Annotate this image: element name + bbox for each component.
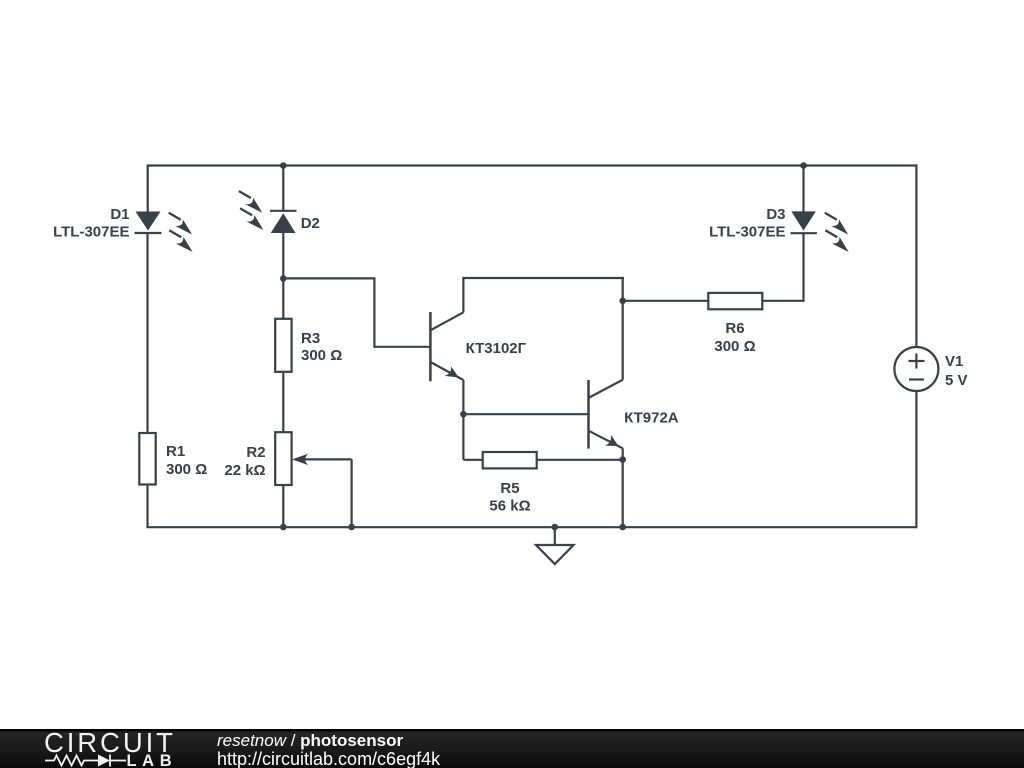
node wiper bottom rail xyxy=(348,524,355,531)
wire Q2 base xyxy=(463,413,588,415)
svg-text:КТ972А: КТ972А xyxy=(624,410,679,427)
wire left rail upper segment xyxy=(147,164,149,212)
svg-text:R5: R5 xyxy=(500,480,519,497)
LED D1 light arrow 2 xyxy=(169,230,192,252)
wire Q1 collector up xyxy=(462,278,464,312)
svg-text:22 kΩ: 22 kΩ xyxy=(224,462,265,479)
wire D2 to node A xyxy=(282,233,284,278)
wire Q2 collector up to top rail xyxy=(622,277,624,380)
wire Q1 emitter down xyxy=(462,380,464,460)
LED D3 light arrow 1 xyxy=(825,213,848,235)
wire R6 from Q2 collector node xyxy=(623,300,709,302)
transistor Q1 KT3102G xyxy=(430,312,463,381)
transistor Q2 KT972A xyxy=(589,380,623,449)
svg-text:R6: R6 xyxy=(725,320,744,337)
svg-text:R2: R2 xyxy=(246,444,265,461)
ground xyxy=(536,545,574,564)
svg-text:D1: D1 xyxy=(110,206,129,223)
wire Q1 emitter to R5 xyxy=(463,459,482,461)
svg-text:5 V: 5 V xyxy=(945,372,968,389)
footer bar xyxy=(0,729,1024,768)
node Q2 emitter bottom rail xyxy=(619,524,626,531)
node R2 bottom rail xyxy=(280,524,287,531)
node A (D2/R3/base wire) xyxy=(280,275,287,282)
svg-text:D2: D2 xyxy=(301,215,320,232)
svg-text:LTL-307EE: LTL-307EE xyxy=(53,224,129,241)
node Q2 emitter / R5 xyxy=(619,456,626,463)
resistor R5 xyxy=(483,452,537,468)
wire D2 branch from top rail xyxy=(282,166,284,211)
svg-text:V1: V1 xyxy=(945,353,963,370)
node top rail / D3 xyxy=(800,162,807,169)
voltage source V1 xyxy=(894,347,938,391)
svg-text:R3: R3 xyxy=(301,330,320,347)
wire R3 to R2 xyxy=(282,372,284,432)
photodiode D2 light arrow 2 xyxy=(240,208,263,230)
LED D1 xyxy=(135,212,162,234)
wire bottom rail xyxy=(148,526,917,528)
svg-text:D3: D3 xyxy=(766,206,785,223)
resistor R3 xyxy=(275,319,291,372)
photodiode D2 light arrow 1 xyxy=(239,191,262,213)
wire R6 to D3 branch xyxy=(762,233,803,301)
svg-text:300 Ω: 300 Ω xyxy=(301,347,342,364)
svg-text:LTL-307EE: LTL-307EE xyxy=(709,224,785,241)
svg-text:R1: R1 xyxy=(166,443,185,460)
LED D3 xyxy=(791,211,817,233)
wire collector top rail Q1-Q2 xyxy=(462,277,624,279)
svg-text:http://circuitlab.com/c6egf4k: http://circuitlab.com/c6egf4k xyxy=(217,749,441,768)
wire D3 branch from top rail xyxy=(802,166,804,212)
wire R5 to Q2 emitter xyxy=(537,459,623,461)
svg-text:resetnow / photosensor: resetnow / photosensor xyxy=(217,731,403,750)
svg-text:300 Ω: 300 Ω xyxy=(166,461,207,478)
wire node A to Q1 base xyxy=(283,278,430,346)
svg-text:300 Ω: 300 Ω xyxy=(714,338,755,355)
wire node A to R3 xyxy=(282,278,284,319)
node Q2 collector / R6 xyxy=(619,298,626,305)
node top rail / D2 xyxy=(280,162,287,169)
resistor R1 xyxy=(139,433,155,485)
LED D3 light arrow 2 xyxy=(825,230,848,252)
wire right rail lower xyxy=(915,391,917,528)
svg-text:56 kΩ: 56 kΩ xyxy=(489,498,530,515)
logo resistor-diode symbol xyxy=(45,755,126,767)
node ground bottom rail xyxy=(552,524,559,531)
svg-text:LAB: LAB xyxy=(127,752,178,768)
wire wiper to bottom rail xyxy=(351,459,353,527)
ground stub xyxy=(554,527,556,545)
svg-text:КТ3102Г: КТ3102Г xyxy=(466,340,527,357)
LED D1 light arrow 1 xyxy=(169,213,192,235)
potentiometer R2 body xyxy=(275,432,291,485)
potentiometer R2 wiper arrow xyxy=(292,454,352,465)
wire Q2 emitter down xyxy=(622,448,624,527)
photodiode D2 xyxy=(270,211,297,233)
wire top rail xyxy=(148,164,917,166)
wire D1 to R1 xyxy=(146,233,148,434)
wire right rail upper xyxy=(915,164,917,347)
node Q1 emitter / Q2 base xyxy=(460,411,467,418)
wire R1 to bottom rail xyxy=(146,485,148,529)
resistor R6 xyxy=(708,293,762,309)
wire R2 to bottom rail xyxy=(282,485,284,527)
